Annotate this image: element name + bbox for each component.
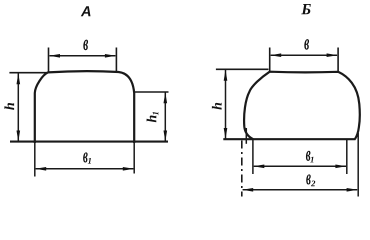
- dimension b extension lines B: [269, 48, 271, 73]
- dimension h line B: [225, 70, 227, 139]
- dimension h1 extension line A: [134, 91, 168, 93]
- dimension b1 line A: [36, 168, 134, 170]
- dimension b2 right extension B: [357, 133, 359, 197]
- dimension h1 line A: [164, 93, 166, 142]
- label b B: [304, 39, 309, 50]
- dimension b line B: [271, 54, 337, 56]
- arrow left b1 A: [35, 167, 46, 171]
- label h1 A: [147, 112, 159, 122]
- arrow top h1 A: [164, 92, 168, 103]
- loaf outline B (barrel): [244, 72, 360, 140]
- arrow top h B: [224, 70, 228, 81]
- dimension b line A: [50, 55, 116, 57]
- arrow bottom h A: [17, 131, 21, 142]
- arrow top h A: [17, 73, 21, 84]
- arrow left b A: [49, 54, 60, 58]
- dimension b extension lines A: [48, 48, 50, 74]
- arrow bottom h1 A: [164, 131, 168, 142]
- label b2 B: [306, 174, 311, 184]
- baseline B: [223, 138, 355, 140]
- loaf outline A: [35, 71, 134, 143]
- label h A: [4, 103, 14, 110]
- dimension b1 line B: [254, 165, 346, 167]
- arrow left b B: [270, 53, 281, 57]
- dimension h extension line A: [9, 72, 48, 74]
- dimension h line A: [17, 74, 19, 142]
- dimension b1 extension lines A: [34, 142, 36, 177]
- dimension b1 extension lines B: [252, 139, 254, 174]
- label b1 B: [306, 151, 311, 161]
- arrow right b B: [327, 53, 338, 57]
- arrow left b2 B: [242, 188, 253, 192]
- label b1 A: [83, 152, 88, 162]
- figure A label: [81, 6, 91, 16]
- baseline A: [10, 141, 168, 143]
- dimension b2 line B: [243, 189, 358, 191]
- figure B label: [301, 4, 311, 14]
- barrel left side overshoot stub B: [245, 128, 247, 144]
- dimension h extension line B: [216, 68, 269, 70]
- label h B: [212, 103, 222, 110]
- arrow left b1 B: [253, 165, 264, 169]
- arrow right b A: [105, 54, 116, 58]
- arrow right b2 B: [347, 188, 358, 192]
- dimension b2 left extension dash-dot B: [241, 141, 243, 197]
- arrow right b1 A: [123, 167, 134, 171]
- arrow bottom h B: [224, 128, 228, 139]
- label b A: [83, 40, 88, 51]
- arrow right b1 B: [335, 165, 346, 169]
